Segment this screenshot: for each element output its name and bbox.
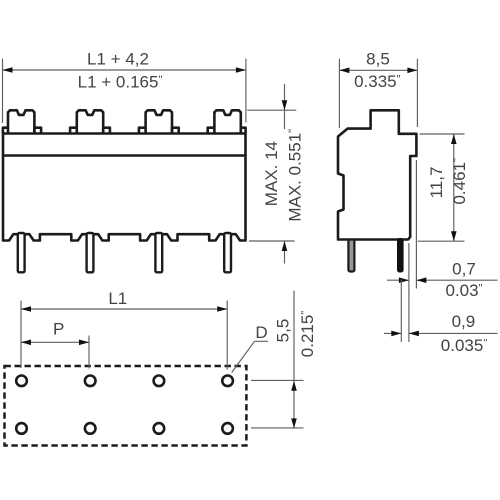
dimension 8,5 arrows	[339, 68, 417, 74]
dimension 5,5 extension lines	[251, 380, 304, 428]
dimension P line	[21, 341, 89, 343]
side pin right filled	[397, 238, 404, 273]
dimension MAX.14 extension lines	[247, 110, 296, 241]
dimension L1+4,2 arrows	[3, 67, 246, 73]
hole B1	[16, 423, 27, 434]
clamp spring 4	[208, 110, 246, 133]
hole A1	[16, 376, 27, 387]
clamp spring 3	[139, 110, 179, 133]
dimension 0,7 line	[387, 279, 498, 281]
dimension 0,9 arrows	[391, 331, 419, 337]
footprint dashed outline	[5, 366, 247, 446]
dimension 8,5 line	[339, 69, 417, 71]
front view body outline	[3, 134, 246, 241]
solder pin 2 front	[87, 233, 94, 272]
dimension L1 extension lines	[21, 301, 227, 370]
front body inner line	[3, 154, 246, 157]
dimension 5,5 line	[293, 291, 295, 429]
svg-text:0.035": 0.035"	[441, 336, 488, 355]
hole A4	[222, 376, 233, 387]
leader D line	[232, 341, 255, 372]
dimension 11,7 extension lines	[418, 134, 465, 241]
svg-text:5,5: 5,5	[273, 319, 292, 343]
svg-text:L1 + 4,2: L1 + 4,2	[87, 50, 149, 69]
dimension 8,5 extension lines	[339, 59, 417, 128]
svg-text:D: D	[255, 323, 267, 342]
dimension MAX.14 line top	[284, 84, 286, 129]
solder pin 4 front	[224, 233, 231, 272]
svg-text:0,7: 0,7	[452, 260, 476, 279]
dimension L1+4,2 line	[3, 69, 246, 71]
dimension 5,5 arrows	[291, 381, 297, 429]
svg-text:0.461": 0.461"	[450, 158, 469, 205]
svg-text:MAX. 0.551": MAX. 0.551"	[286, 129, 305, 222]
side view body outline	[338, 110, 416, 239]
dimension 0,7 arrows	[399, 277, 427, 283]
dimension P arrows	[21, 340, 89, 346]
dimension L1 arrows	[21, 306, 227, 312]
leader D underline	[255, 340, 269, 342]
svg-text:L1: L1	[108, 289, 127, 308]
hole A3	[154, 376, 165, 387]
svg-text:11,7: 11,7	[427, 167, 446, 199]
hole B3	[154, 423, 165, 434]
solder pin 3 front	[155, 233, 162, 272]
svg-text:0.215": 0.215"	[298, 311, 317, 358]
clamp spring 1	[3, 110, 41, 133]
svg-text:MAX. 14: MAX. 14	[262, 141, 281, 206]
hole A2	[85, 376, 96, 387]
dimension MAX.14 arrows	[282, 100, 288, 251]
side pin left	[348, 240, 354, 272]
svg-text:0,9: 0,9	[452, 312, 476, 331]
svg-text:0.335": 0.335"	[354, 72, 401, 91]
dimension 0,7 extension lines	[409, 160, 417, 342]
dimension L1+4,2 extension lines	[3, 59, 246, 124]
svg-text:L1 + 0.165": L1 + 0.165"	[78, 73, 163, 92]
clamp spring 2	[70, 110, 110, 133]
dimension 0,9 line	[384, 332, 498, 334]
svg-text:8,5: 8,5	[366, 49, 390, 68]
dimension L1 line	[21, 308, 227, 310]
dimension P extension line	[88, 336, 90, 369]
svg-text:P: P	[53, 319, 64, 338]
svg-text:0.03": 0.03"	[446, 281, 483, 300]
hole B4	[222, 423, 233, 434]
hole B2	[85, 423, 96, 434]
dimension 11,7 arrows	[451, 134, 457, 241]
dimension MAX.14 line bottom	[284, 241, 286, 263]
solder pin 1 front	[18, 233, 25, 272]
dimension 11,7 line	[453, 134, 455, 241]
dimension 0,9 extension line	[400, 280, 402, 343]
